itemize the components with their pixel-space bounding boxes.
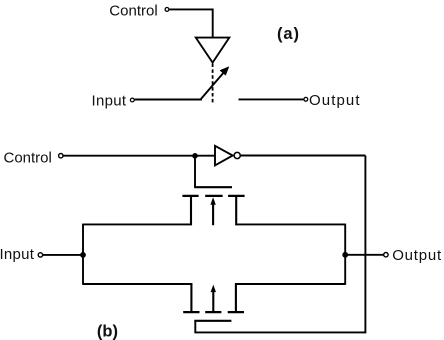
bottom rail right segment xyxy=(235,283,345,285)
dashed control link xyxy=(212,64,214,103)
wire gate drop to top transistor Q1 xyxy=(194,157,196,187)
source stem Q2 xyxy=(190,283,192,311)
drain stem Q1 xyxy=(235,197,237,225)
svg-text:Control: Control xyxy=(4,149,52,166)
source stem Q1 xyxy=(190,197,192,225)
svg-text:Input: Input xyxy=(0,246,35,263)
bulk stem with arrow Q2 xyxy=(211,285,216,312)
terminal: control input (a) xyxy=(165,7,169,11)
wire output (a) xyxy=(239,98,304,100)
terminal: input (b) xyxy=(38,253,42,257)
drain stem Q2 xyxy=(235,283,237,311)
inverter U2 bubble xyxy=(234,152,240,158)
inverter U2 triangle xyxy=(215,146,233,166)
junction node: output bus xyxy=(342,252,348,258)
channel bars of top transistor Q1 xyxy=(182,195,244,197)
wire inverter output to right drop xyxy=(240,155,365,157)
channel bars of bottom transistor Q2 xyxy=(183,311,244,313)
svg-text:Output: Output xyxy=(392,247,442,264)
wire input (a) xyxy=(134,99,202,101)
terminal: control input (b) xyxy=(59,154,63,158)
bottom rail left segment xyxy=(83,283,192,285)
gate bar of bottom transistor Q2 xyxy=(194,320,231,322)
svg-text:(b): (b) xyxy=(97,322,118,340)
junction node: control / nmos gate xyxy=(192,153,198,159)
top rail left segment xyxy=(83,223,192,225)
left bus xyxy=(82,224,84,285)
terminal: input (a) xyxy=(130,98,134,102)
wire control to inverter (b) xyxy=(63,155,215,157)
top rail right segment xyxy=(235,223,345,225)
gate bar of top transistor Q1 xyxy=(194,186,232,188)
svg-text:Output: Output xyxy=(309,92,361,109)
svg-text:Control: Control xyxy=(109,3,157,20)
wire control to buffer (a) xyxy=(169,9,213,37)
terminal: output (a) xyxy=(304,97,308,101)
right bus xyxy=(344,224,346,285)
wire right drop to pmos gate (bottom) xyxy=(195,156,365,333)
svg-text:Input: Input xyxy=(92,92,127,109)
switch arm with arrow xyxy=(201,67,229,100)
terminal: output (b) xyxy=(384,253,388,257)
bulk stem with arrow Q1 xyxy=(210,197,215,225)
buffer U1 (triangle, pointing down) xyxy=(196,38,230,63)
svg-text:(a): (a) xyxy=(277,25,300,43)
wire output (b) xyxy=(345,254,384,256)
wire input (b) xyxy=(43,254,83,256)
junction node: input bus xyxy=(80,252,86,258)
